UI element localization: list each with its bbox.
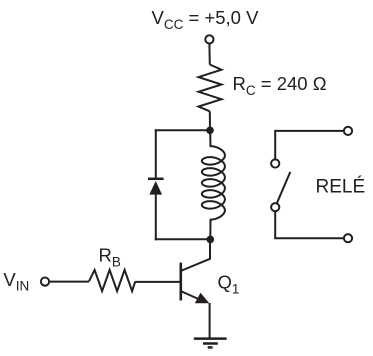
node B (bottom junction) — [207, 236, 215, 244]
relay contact: wire top — [275, 131, 344, 160]
wire RB to base — [135, 281, 181, 283]
relay contact lower circle — [271, 203, 279, 211]
relay terminal top right — [344, 127, 352, 135]
resistor RB — [89, 270, 135, 291]
wire RC to node A — [209, 111, 211, 130]
terminal VIN — [41, 278, 49, 286]
ground — [194, 339, 227, 348]
wire diode branch lower — [155, 195, 157, 241]
relay terminal bottom right — [344, 234, 352, 242]
wire VCC to RC — [208, 44, 210, 65]
node A (top junction) — [206, 127, 214, 135]
svg-text:RC = 240 Ω: RC = 240 Ω — [233, 73, 327, 98]
wire node B to collector — [182, 239, 210, 270]
wire emitter to ground — [209, 303, 211, 338]
diode D1 triangle — [149, 181, 162, 195]
terminal VCC — [205, 35, 213, 43]
svg-text:VIN: VIN — [3, 269, 29, 294]
svg-text:Q1: Q1 — [218, 272, 240, 297]
relay contact upper circle — [271, 159, 279, 167]
svg-text:RELÉ: RELÉ — [316, 177, 366, 198]
resistor RC — [199, 65, 222, 112]
wire node A to diode branch — [155, 129, 210, 131]
transistor Q1 base bar — [180, 263, 183, 301]
wire diode branch to node B — [155, 238, 211, 240]
transistor Q1 emitter arrow — [195, 293, 210, 304]
transistor Q1 emitter line — [182, 292, 203, 302]
relay switch blade — [277, 172, 291, 203]
svg-text:VCC = +5,0 V: VCC = +5,0 V — [152, 7, 260, 32]
wire diode branch upper — [155, 129, 157, 178]
inductor L1 relay coil — [202, 132, 225, 239]
svg-text:RB: RB — [99, 245, 121, 270]
diode D1 cathode bar — [148, 178, 164, 181]
wire VIN to RB — [49, 281, 89, 283]
relay contact: wire bottom — [275, 211, 344, 238]
